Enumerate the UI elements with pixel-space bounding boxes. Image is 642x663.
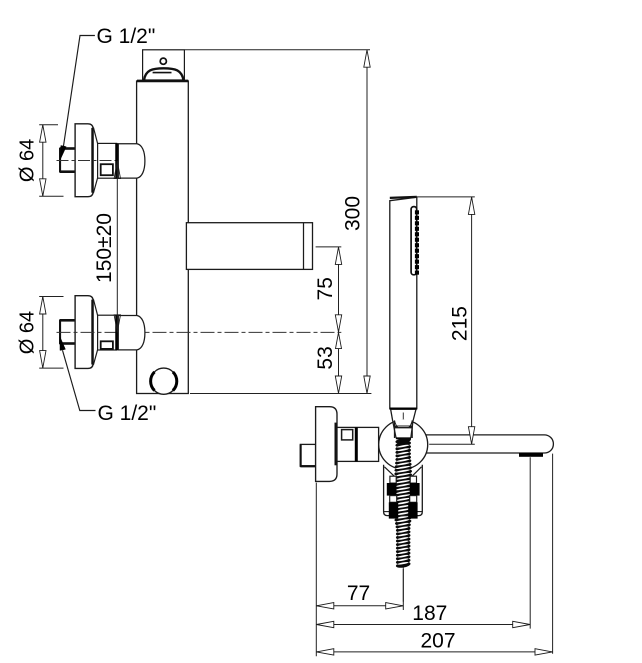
wall supply pipe stub bbox=[60, 149, 76, 172]
body top edge bbox=[137, 80, 188, 83]
upper connection centerline bbox=[57, 160, 123, 162]
wall reference extension line bbox=[315, 483, 317, 657]
holder slot bbox=[395, 419, 412, 444]
connector square detail bbox=[101, 164, 113, 175]
temperature knob (bottom view) bbox=[151, 368, 177, 394]
dim 187: dimension line bbox=[316, 624, 530, 626]
holder cup outline bbox=[384, 465, 423, 516]
aerator at spout tip bbox=[519, 453, 543, 457]
dim 77: dimension line bbox=[316, 605, 403, 607]
spout (side profile) bbox=[186, 223, 312, 270]
svg-text:300: 300 bbox=[342, 196, 365, 231]
dim 150±20: dimension line bbox=[116, 161, 118, 332]
tub spout (plan/edge) bbox=[420, 435, 553, 453]
lower connection centerline (extended for dims) bbox=[57, 331, 342, 333]
mixer body column bbox=[137, 81, 189, 394]
svg-text:53: 53 bbox=[314, 346, 337, 369]
hand shower head bbox=[390, 197, 417, 409]
spout end extension line bbox=[552, 454, 554, 654]
handle sides inside slot bbox=[393, 421, 396, 438]
leader G 1/2 bottom bbox=[63, 350, 96, 410]
connector nut end (thick) bbox=[115, 315, 118, 350]
top dome cap bbox=[144, 68, 184, 80]
svg-text:77: 77 bbox=[347, 582, 370, 605]
dim 75: dimension line bbox=[338, 247, 340, 332]
dim Ø64 upper: extension lines bbox=[39, 124, 58, 126]
dim 215: top extension line bbox=[416, 196, 475, 198]
dim 215: dimension line bbox=[471, 197, 473, 445]
taper neck bbox=[93, 127, 97, 143]
right view: connector band to holder bbox=[337, 427, 379, 461]
slot clip wedges bbox=[395, 421, 398, 427]
taper neck bbox=[93, 299, 97, 315]
grip pad row 1 bbox=[387, 483, 397, 496]
svg-text:207: 207 bbox=[420, 629, 455, 652]
hose nipple line bbox=[396, 437, 411, 439]
connector square detail bbox=[101, 341, 113, 349]
connection bullet into body bbox=[118, 144, 145, 178]
dim 207: dimension line bbox=[316, 651, 552, 653]
right view: wall flange bbox=[316, 407, 337, 482]
connection bullet into body bbox=[118, 316, 145, 350]
dim 300: top extension line bbox=[185, 49, 370, 51]
aerator extension line bbox=[529, 457, 531, 628]
wall flange escutcheon bbox=[75, 296, 93, 369]
svg-text:215: 215 bbox=[448, 306, 471, 341]
svg-text:G 1/2": G 1/2" bbox=[98, 402, 157, 425]
svg-text:187: 187 bbox=[412, 602, 447, 625]
handle end rings in slot bbox=[394, 425, 413, 427]
spray face strip bbox=[411, 207, 417, 275]
dim 300: bottom extension line bbox=[190, 393, 371, 395]
spout end cap line bbox=[303, 223, 305, 270]
leader G 1/2 top bbox=[63, 36, 95, 148]
collar rings row 2 bbox=[390, 496, 397, 503]
wall supply pipe stub bbox=[60, 320, 76, 343]
handle taper below joint bbox=[391, 410, 393, 421]
dim 53: dimension line bbox=[338, 332, 340, 393]
connector nut thick line bbox=[355, 427, 358, 461]
shower hose (spiral) bbox=[394, 437, 413, 569]
cup top diagonals bbox=[384, 467, 395, 478]
connector nut end (thick) bbox=[115, 143, 118, 178]
spray nozzles bbox=[415, 210, 419, 274]
dim 75: spout centerline extension bbox=[316, 246, 342, 248]
connector square detail bbox=[342, 430, 353, 440]
dim Ø64 lower: extension lines bbox=[39, 296, 63, 298]
hose axis line bbox=[402, 413, 404, 602]
shower holder ring bbox=[379, 420, 428, 469]
handle joint line bbox=[390, 408, 417, 410]
connector cylinder bbox=[98, 143, 117, 178]
svg-text:G 1/2": G 1/2" bbox=[97, 25, 156, 48]
connector cylinder bbox=[98, 315, 117, 350]
svg-text:Ø 64: Ø 64 bbox=[17, 311, 39, 354]
dim Ø64 upper: dimension line bbox=[42, 125, 44, 197]
wall flange escutcheon bbox=[75, 124, 93, 197]
collar rings bbox=[390, 476, 396, 483]
svg-text:Ø 64: Ø 64 bbox=[17, 139, 39, 182]
hose end extension line bbox=[402, 569, 404, 610]
svg-text:75: 75 bbox=[314, 277, 337, 300]
top plate screw hole bbox=[160, 58, 166, 64]
svg-text:150±20: 150±20 bbox=[93, 213, 116, 283]
dim 300: dimension line bbox=[366, 50, 368, 394]
dim 215: spout centerline tick bbox=[429, 443, 475, 445]
right view: supply stub bbox=[300, 444, 315, 466]
dim Ø64 lower: dimension line bbox=[42, 297, 44, 369]
grip pad row 2 bbox=[389, 502, 398, 518]
top wall plate bbox=[143, 50, 185, 81]
